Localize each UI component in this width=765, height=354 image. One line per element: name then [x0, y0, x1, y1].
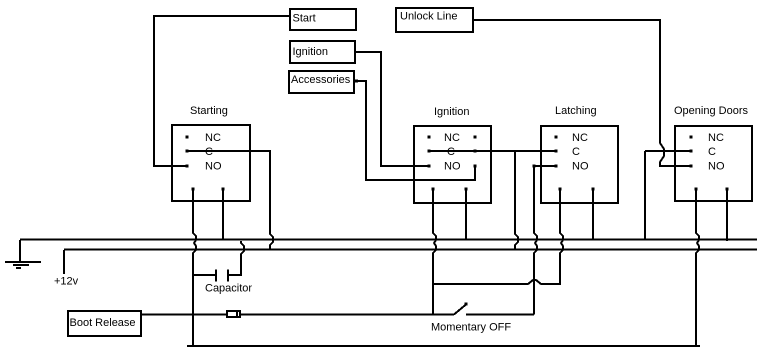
node Opening pin dot left	[695, 188, 698, 191]
node Accessories label box	[289, 71, 354, 93]
relay K4 Opening Doors box	[675, 126, 752, 201]
svg-text:Ignition: Ignition	[293, 46, 328, 58]
relay K1 Starting box	[172, 125, 250, 201]
node Ignition pin dot right	[465, 188, 468, 191]
node Opening NC dot	[690, 136, 693, 139]
wire switch to Latching NO vertical	[466, 314, 534, 316]
wire Starting left pin down to bottom rail	[193, 190, 196, 346]
node Starting pin dot right	[222, 188, 225, 191]
node Ignition C dot right	[474, 150, 477, 153]
wire Starting right pin to ground bus	[222, 190, 224, 240]
wire Latching NO junction down to momentary switch	[534, 167, 537, 315]
wire Opening Doors left pin down to bottom rail	[696, 190, 699, 346]
node +12v stem	[63, 250, 65, 274]
node Starting C contact dot	[186, 150, 189, 153]
node Starting pin dot left	[192, 188, 195, 191]
wire Ignition box to Ignition relay NO left	[356, 52, 428, 166]
svg-text:NO: NO	[572, 161, 589, 173]
wire Unlock Line to Opening Doors NO with hop	[474, 20, 690, 166]
wire ground bus	[20, 239, 757, 241]
wire Opening Doors right pin to ground bus	[726, 190, 728, 241]
svg-text:Accessories: Accessories	[291, 74, 351, 86]
svg-text:Boot Release: Boot Release	[70, 317, 136, 329]
svg-text:NC: NC	[572, 132, 588, 144]
node Latching C dot	[555, 150, 558, 153]
node Unlock Line label box	[396, 8, 473, 32]
wire Ignition right pin to ground bus	[465, 190, 467, 240]
wire +12v bus	[64, 249, 757, 251]
node Ignition NC dot right	[474, 136, 477, 139]
node Starting NO contact dot	[186, 165, 189, 168]
node Ignition label box	[290, 41, 355, 63]
node Opening NO dot	[690, 165, 693, 168]
svg-text:NO: NO	[205, 161, 222, 173]
svg-text:C: C	[572, 146, 580, 158]
svg-text:C: C	[447, 146, 455, 158]
node Ignition NO dot right	[474, 165, 477, 168]
svg-text:NO: NO	[708, 161, 725, 173]
diode D1	[227, 311, 240, 317]
wire Start box to Starting relay NO	[154, 16, 289, 166]
node Ignition NO dot left	[428, 165, 431, 168]
node Latching pin dot left	[559, 188, 562, 191]
wire bottom rail	[187, 345, 700, 347]
node Ignition pin dot left	[432, 188, 435, 191]
svg-text:Start: Start	[293, 13, 316, 25]
wire Opening Doors C down to ground bus	[644, 151, 646, 240]
node Opening C dot	[690, 150, 693, 153]
svg-text:NC: NC	[708, 132, 724, 144]
svg-text:C: C	[708, 146, 716, 158]
node Latching NC dot	[555, 136, 558, 139]
wire Latching right pin to ground bus	[592, 190, 594, 240]
svg-text:Momentary OFF: Momentary OFF	[431, 322, 511, 334]
node switch blade tip	[465, 303, 468, 306]
node Start label box	[290, 9, 356, 30]
svg-text:Opening Doors: Opening Doors	[674, 105, 748, 117]
wire Starting relay C out to +12v bus with hop over ground bus	[188, 151, 273, 250]
svg-text:Latching: Latching	[555, 105, 597, 117]
wire diode to switch	[241, 314, 454, 316]
wire Accessories box to Ignition relay NO right	[355, 81, 475, 180]
svg-text:+12v: +12v	[54, 276, 79, 288]
node Starting NC contact dot	[186, 136, 189, 139]
svg-text:Capacitor: Capacitor	[205, 283, 252, 295]
node Ignition NC dot left	[428, 136, 431, 139]
svg-text:Starting: Starting	[190, 105, 228, 117]
relay K3 Latching box	[541, 126, 618, 203]
node Accessories wire junction dot	[355, 80, 358, 83]
node Latching NO junction dot	[533, 165, 536, 168]
wire Latching NO junction to Latching NO dot	[534, 165, 555, 167]
node Boot Release label box	[68, 311, 141, 336]
wire Ignition C to Latching C	[430, 150, 555, 152]
wire Ignition left pin down to switch	[433, 190, 436, 315]
node Latching pin dot right	[592, 188, 595, 191]
svg-text:NC: NC	[205, 132, 221, 144]
svg-text:Ignition: Ignition	[434, 106, 469, 118]
wire Opening Doors C horizontal	[645, 150, 690, 152]
svg-text:NC: NC	[444, 132, 460, 144]
node Opening pin dot right	[726, 188, 729, 191]
switch SW1 momentary blade	[454, 305, 466, 315]
ground	[19, 240, 21, 262]
wire capacitor to ground bus with hop over +12v bus	[229, 241, 244, 275]
svg-text:C: C	[205, 146, 213, 158]
node Ignition C dot left	[428, 150, 431, 153]
node Latching NO dot	[555, 165, 558, 168]
capacitor C1	[215, 270, 217, 282]
wire Ignition/Latching C to +12v bus with hop	[515, 151, 518, 250]
relay K2 Ignition box	[414, 126, 491, 203]
svg-text:NO: NO	[444, 161, 461, 173]
wire Boot Release to diode	[141, 314, 226, 316]
wire capacitor branch from Starting left pin	[193, 274, 215, 276]
svg-text:Unlock Line: Unlock Line	[400, 11, 457, 23]
wire Latching left pin down and across with hop over switch wire	[434, 190, 563, 284]
